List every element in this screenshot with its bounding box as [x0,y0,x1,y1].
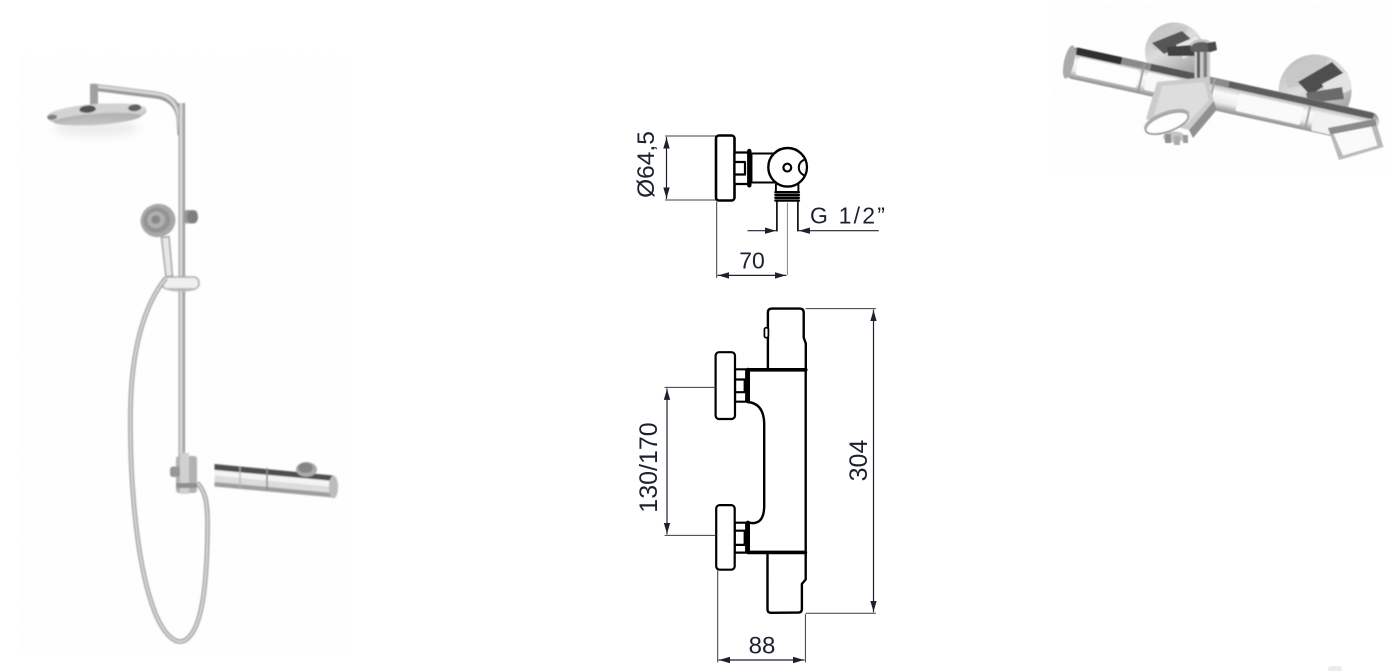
svg-text:130/170: 130/170 [635,422,663,512]
photo grain [1050,5,1392,175]
shower arm [92,87,181,135]
dim Ø64,5 extension lines [666,136,717,200]
svg-text:Ø64,5: Ø64,5 [633,131,660,198]
collar [735,153,750,185]
outlet neck [776,185,799,192]
bottom horn collar [735,523,747,553]
top horn square [735,380,745,393]
cap button [764,328,768,338]
svg-text:G 1/2”: G 1/2” [810,203,887,229]
bath mixer photo (right) [1030,0,1392,200]
dim texts [633,131,887,659]
dim Ø64,5 line [666,138,668,199]
separator ring bottom [748,551,805,555]
svg-text:70: 70 [739,248,765,274]
left wall escutcheon [1145,23,1204,82]
diverter knob [296,462,317,477]
shower column photo (left) [0,0,420,671]
dim 130/170 line [666,389,668,534]
hand shower holder [184,210,198,224]
bar body [1060,44,1381,146]
svg-text:304: 304 [845,440,873,482]
head mount post [90,84,98,106]
rain shower head [46,101,147,129]
dim 70 line [718,274,786,276]
spout tip ring [1142,106,1191,139]
dim 304 extension lines [806,309,876,614]
body waist curve [748,402,764,523]
vertical pipe [179,103,186,473]
pipe-mixer tee [176,456,197,493]
right wall escutcheon [1279,55,1353,128]
dim 70 extension lines [716,202,718,278]
bottom horn flange bar [746,523,750,552]
mixer bar [215,462,339,498]
photo grain [20,55,350,655]
handle knob (side) [716,136,735,201]
faint corner mark [1328,666,1342,671]
right disc lower shade [1282,96,1320,124]
technical drawing (middle) [600,0,1020,671]
hand shower head [137,200,179,241]
thread [775,192,799,200]
hose [130,278,207,642]
pipe center line [786,203,788,275]
notch arc [799,159,815,175]
hand shower handle [162,237,173,277]
dim 130/170 extension lines [665,387,716,535]
top horn flange bar [746,370,750,402]
spout body [1142,77,1216,145]
separator ring top [748,368,805,372]
top wall flange [716,352,735,419]
top cap [768,309,806,369]
screw circle [783,164,791,172]
slider / soap dish [162,277,199,289]
bar right end face [1328,119,1384,160]
flange bar [747,151,751,185]
outlet pipe [777,202,798,231]
body right edge [768,370,806,613]
dim 88 extension lines [718,571,806,662]
svg-text:88: 88 [749,633,776,660]
bottom horn square [735,531,745,545]
dim G 1/2" leader [748,230,776,232]
valve body [752,154,782,183]
stem square [735,162,746,175]
aerator under-bits [1163,132,1185,143]
dim 304 line [873,310,875,612]
diverter knob [1190,41,1217,99]
top horn collar [735,369,746,401]
valve circle [768,148,807,187]
bottom wall flange [716,505,735,570]
dim 88 line [719,659,804,661]
soft haze under rain head [54,119,138,137]
